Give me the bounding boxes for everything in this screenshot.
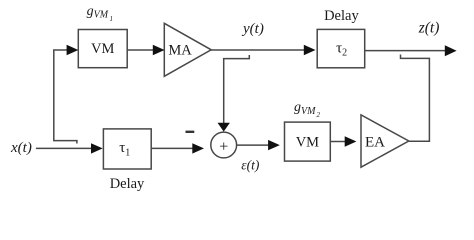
svg-text:+: + [219, 138, 228, 155]
svg-text:MA: MA [168, 43, 192, 59]
svg-text:VM: VM [91, 41, 114, 57]
svg-text:z(t): z(t) [418, 20, 440, 37]
svg-text:EA: EA [365, 135, 385, 151]
svg-text:x(t): x(t) [10, 140, 32, 156]
svg-text:y(t): y(t) [241, 21, 264, 37]
svg-text:Delay: Delay [110, 176, 145, 192]
svg-text:Delay: Delay [324, 8, 359, 24]
svg-text:ε(t): ε(t) [241, 158, 260, 173]
svg-text:VM: VM [296, 135, 319, 151]
